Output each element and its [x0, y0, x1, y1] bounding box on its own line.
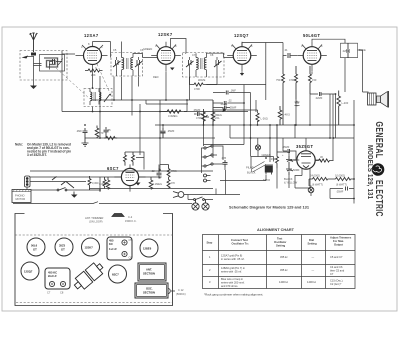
switch slashes [52, 177, 74, 189]
C12 trimmer bump [168, 289, 175, 294]
resistor 3300 [88, 176, 91, 190]
wire x353 right bus [353, 100, 355, 204]
switch S2 [57, 188, 67, 191]
diode arrow [223, 108, 228, 112]
resistor 5MEG [149, 177, 153, 189]
svg-text:150: 150 [271, 157, 276, 161]
svg-text:150: 150 [312, 78, 317, 82]
svg-text:GT: GT [61, 248, 65, 252]
capacitor .05MF near V5 [285, 149, 293, 153]
svg-text:ELECTRIC: ELECTRIC [374, 180, 386, 217]
IF2 primary winding [196, 58, 202, 70]
svg-text:12SA7: 12SA7 [84, 33, 99, 38]
loop antenna dashed box [20, 51, 67, 81]
capacitor .02MF plate bypass [341, 43, 358, 58]
IF transformer T2 dashed box [183, 53, 225, 78]
svg-text:series with 200 mmf.: series with 200 mmf. [221, 281, 245, 285]
svg-text:Setting: Setting [308, 242, 317, 246]
svg-text:12SA7 grid (Pin 8): 12SA7 grid (Pin 8) [221, 254, 242, 258]
GE logo [372, 163, 385, 176]
chassis hatched bottom edge [16, 302, 172, 304]
svg-text:KC: KC [109, 242, 113, 246]
wire V6 row [47, 177, 213, 189]
resistors above V6 [124, 152, 127, 166]
svg-text:For Max.: For Max. [333, 239, 344, 243]
resistor 10,000 6 WATT [333, 177, 354, 180]
svg-text:ALIGNMENT CHART: ALIGNMENT CHART [257, 228, 295, 232]
resistor 470K (V6 plate) [167, 165, 170, 179]
wires IF1 to V2 [117, 54, 158, 101]
gang tuning capacitor [71, 260, 105, 292]
wires top of motor area [27, 171, 213, 190]
svg-text:C7: C7 [47, 291, 51, 295]
chassis tube 12SK7 [82, 238, 100, 256]
svg-text:1st I-F: 1st I-F [109, 247, 117, 251]
svg-text:GREEN: GREEN [143, 47, 152, 51]
ground (V3) [240, 73, 244, 76]
svg-text:(ON LOOP): (ON LOOP) [89, 220, 103, 224]
svg-text:SECTION: SECTION [143, 272, 155, 276]
resistor 27K [167, 179, 170, 189]
chassis corner brackets [15, 214, 173, 223]
svg-text:C 12: C 12 [178, 288, 184, 292]
IF2 secondary winding [204, 58, 206, 70]
trimmer C6 [135, 60, 143, 67]
chassis 2nd IF can [45, 268, 70, 289]
svg-text:C7: C7 [330, 272, 334, 276]
first audio tube V6 6SC7 [114, 164, 145, 191]
speaker [377, 91, 389, 108]
connector block [25, 176, 31, 187]
svg-text:MOTOR: MOTOR [16, 197, 26, 201]
AVC wire y110 [213, 110, 258, 145]
table frame [203, 235, 356, 289]
wire x114 [113, 77, 115, 101]
wire x313 V4 cathode [311, 72, 313, 75]
wire x242 V3 cathode [241, 72, 243, 74]
svg-text:C2 (Ant.)*: C2 (Ant.)* [330, 282, 341, 286]
ant trimmer symbol [112, 214, 124, 217]
wire motor to switch [31, 190, 100, 192]
antenna coupling capacitor [31, 53, 36, 56]
capacitor .01MF (V4 grid coupling) [288, 53, 290, 58]
wire V3 plate coupling [242, 43, 287, 101]
capacitor .02MF (cathode bypass) [310, 92, 336, 96]
svg-text:.05MF: .05MF [336, 190, 344, 194]
resistor L-26 vertical [256, 113, 259, 122]
chassis tube 35Z5GT [55, 238, 73, 256]
svg-text:BLACK: BLACK [247, 171, 256, 175]
ant section box [138, 263, 166, 281]
convenience outlet 2 [202, 200, 209, 211]
trimmer C1 [53, 58, 63, 65]
svg-text:50MF: 50MF [293, 168, 300, 172]
dashed gang link (tuning) [56, 68, 90, 99]
wire bus y100 [92, 99, 213, 101]
loop antenna L1 [34, 55, 65, 79]
svg-text:12SQ7: 12SQ7 [24, 270, 33, 274]
svg-text:L-200: L-200 [342, 101, 349, 105]
svg-text:C6: C6 [129, 256, 133, 260]
svg-text:C8: C8 [60, 291, 64, 295]
svg-text:Adjust Trimmers: Adjust Trimmers [330, 236, 352, 240]
svg-text:.2MF: .2MF [76, 129, 82, 133]
convenience outlet 1 [192, 200, 199, 211]
table row 1 [209, 254, 343, 262]
svg-text:Output: Output [334, 243, 343, 247]
capacitor .2MF + ground [83, 128, 88, 138]
wire V5 plate [305, 138, 307, 147]
wire V1 plate to IF1 [93, 42, 111, 58]
output transformer T3 [368, 93, 377, 105]
svg-text:Schematic Diagram for Models 1: Schematic Diagram for Models 129 and 131 [229, 205, 310, 210]
ground (line) [71, 192, 78, 198]
resistor 3.3MEG horizontal [163, 110, 187, 114]
svg-text:35Z5: 35Z5 [59, 244, 66, 248]
svg-text:—: — [312, 256, 315, 259]
svg-text:40MF: 40MF [293, 158, 300, 162]
antenna [30, 33, 38, 53]
svg-text:C8: C8 [210, 53, 214, 57]
svg-text:.25MF: .25MF [167, 129, 175, 133]
svg-text:24,000Ω: 24,000Ω [310, 174, 320, 178]
speaker field coil L-2 [265, 164, 273, 175]
svg-text:ANT. TRIMMER: ANT. TRIMMER [85, 216, 104, 220]
potentiometer 2MEG VOL [206, 109, 215, 125]
wire x160 [159, 100, 161, 170]
chassis 1st IF can [107, 237, 132, 260]
svg-text:(500KC): (500KC) [176, 292, 186, 296]
capacitor .05MF line filter [346, 187, 348, 191]
wire osc connections [90, 88, 99, 105]
AVC wire y92.5 [213, 93, 251, 157]
svg-text:20K: 20K [91, 73, 96, 77]
wires lamp loop [251, 150, 274, 168]
svg-text:470K: 470K [289, 78, 295, 82]
capacitor .005MF [223, 160, 228, 167]
svg-text:470: 470 [99, 131, 104, 135]
AVC wire y103 [206, 85, 266, 145]
wires filter section [220, 152, 289, 189]
wire x230 [229, 125, 231, 138]
svg-text:35Z5GT: 35Z5GT [296, 144, 314, 149]
svg-text:2nd I-F: 2nd I-F [48, 274, 57, 278]
svg-text:MODELS 129, 131: MODELS 129, 131 [366, 145, 373, 199]
svg-text:12BA6 grid (Pin 7) in: 12BA6 grid (Pin 7) in [221, 266, 245, 270]
wire to speaker [358, 50, 369, 92]
detector tube V3 12SQ7 [227, 42, 257, 72]
svg-text:.02MF: .02MF [315, 96, 323, 100]
phono motor box [12, 190, 31, 203]
svg-text:.02: .02 [228, 99, 232, 103]
resistor 180 horizontal [104, 136, 117, 139]
svg-text:455 kc: 455 kc [280, 268, 288, 272]
wire x270 [269, 125, 271, 162]
svg-text:GENERAL: GENERAL [374, 122, 386, 159]
wire diagonals (cable) [252, 162, 267, 173]
svg-text:6SC7: 6SC7 [112, 273, 119, 277]
svg-text:OSC.: OSC. [146, 287, 153, 291]
capacitor .05MF coupling [194, 112, 202, 116]
svg-text:27K: 27K [171, 181, 176, 185]
IF1 primary winding [122, 58, 129, 70]
svg-text:3.3MEG: 3.3MEG [168, 114, 178, 118]
svg-text:455 KC: 455 KC [48, 271, 57, 275]
svg-text:50L6GT: 50L6GT [303, 33, 321, 38]
svg-text:Dial: Dial [309, 238, 314, 242]
chassis hatched top edge [15, 234, 173, 236]
svg-text:in series with .05 mf.: in series with .05 mf. [221, 257, 245, 261]
table row 3 [209, 277, 344, 288]
wire x213 [212, 100, 214, 158]
resistor 470K vertical [202, 109, 206, 125]
capacitor .05MF (V4 grid) [295, 101, 300, 106]
table header text [207, 236, 352, 248]
svg-text:VOL: VOL [215, 116, 221, 120]
svg-text:and 470 ohms.: and 470 ohms. [221, 284, 238, 288]
svg-text:C7: C7 [192, 53, 196, 57]
svg-text:12SK7: 12SK7 [85, 246, 94, 250]
svg-text:—: — [312, 269, 315, 272]
svg-text:1500 K.C.: 1500 K.C. [125, 219, 137, 223]
svg-text:12SQ7: 12SQ7 [234, 33, 249, 38]
svg-text:RED: RED [153, 75, 159, 79]
svg-text:1400 kc: 1400 kc [307, 280, 317, 284]
svg-text:C5: C5 [113, 48, 117, 52]
wire bus y111.5 [62, 61, 248, 112]
chassis tube 50L6GT [27, 238, 45, 256]
IF1 secondary winding [131, 58, 133, 70]
wire V1 cathode down [92, 71, 94, 112]
wire x166 V2 cathode [165, 72, 167, 101]
wires V5 cathode/heater [295, 176, 311, 197]
phono jack [204, 174, 211, 182]
svg-text:.02MF: .02MF [342, 49, 350, 53]
wire bus y138 [85, 137, 354, 139]
svg-text:Oscillator To:: Oscillator To: [232, 242, 249, 246]
trimmer C5 [113, 60, 121, 67]
wire x100 [99, 76, 101, 138]
svg-text:SECTION: SECTION [143, 291, 155, 295]
wire switch feeders [204, 144, 245, 146]
top B+ bus wire [111, 42, 122, 55]
resistor 470K (V4 grid) [295, 66, 298, 100]
rectifier tube V5 35Z5GT [291, 147, 321, 176]
wire x280 [282, 42, 284, 44]
arrow (loop lead) [22, 56, 29, 59]
svg-text:PHONO: PHONO [15, 194, 25, 198]
resistor 470K (diode load) [191, 83, 206, 86]
resistor 470 ohm vertical [95, 126, 99, 139]
svg-text:C4 and C6: C4 and C6 [330, 265, 343, 269]
svg-text:(6 WATT): (6 WATT) [336, 183, 347, 187]
ground (V2 cathode) [170, 68, 175, 71]
svg-text:470K: 470K [194, 87, 200, 91]
capacitor .01MF [221, 106, 230, 110]
resistor 20K (V1 cathode) [85, 69, 103, 72]
osc section box [135, 283, 168, 298]
field coil resistor L-200 [337, 91, 341, 126]
svg-text:Test: Test [277, 237, 282, 241]
svg-text:470K: 470K [196, 116, 202, 120]
oscillator coil dashed box [84, 89, 112, 107]
svg-text:C5: C5 [129, 238, 133, 242]
pilot lamp [308, 187, 314, 193]
svg-text:5.1MEG: 5.1MEG [153, 182, 163, 186]
output tube V4 50L6GT [297, 42, 327, 72]
ground (V6 cathode) [136, 183, 141, 186]
svg-text:Connect Test: Connect Test [231, 238, 248, 242]
resistor (line filter) [103, 177, 106, 189]
svg-text:ANT.: ANT. [146, 268, 152, 272]
table row 2 [209, 265, 345, 276]
wire V4 plate to output transformer [312, 39, 345, 92]
resistor 24,000 6 WATT [309, 177, 333, 180]
resistor 3.3MEG (V6 grid) [106, 177, 110, 189]
svg-text:50L6: 50L6 [31, 244, 38, 248]
svg-text:.01: .01 [284, 48, 288, 52]
wire bus y104 [146, 100, 188, 104]
wire antenna to tube grid [50, 51, 76, 70]
svg-text:10,000Ω: 10,000Ω [335, 174, 345, 178]
resistor 22MEG vertical [278, 106, 282, 125]
svg-text:.005: .005 [221, 156, 227, 160]
wire x132 [131, 77, 133, 116]
IF amplifier tube V2 12SK7 [151, 42, 181, 72]
wire box right of V6 [125, 152, 144, 170]
svg-text:PILOT: PILOT [246, 166, 254, 170]
trimmer C8 [214, 60, 222, 67]
capacitor .01 near V6 [157, 168, 162, 179]
svg-text:Blue wire or loop in: Blue wire or loop in [221, 277, 244, 281]
svg-text:C5 and C7: C5 and C7 [330, 255, 343, 259]
chassis tube 12BE6 [140, 239, 158, 257]
svg-text:1400 kc: 1400 kc [279, 280, 289, 284]
trimmer C7 [186, 60, 194, 67]
svg-text:6SC7: 6SC7 [107, 166, 119, 171]
oscillator coil L3 [90, 92, 111, 102]
dial lamp [255, 145, 260, 150]
svg-text:SPKR: SPKR [263, 178, 270, 182]
svg-text:C-2: C-2 [128, 215, 133, 219]
wires switch bank [202, 146, 226, 173]
electrolytic capacitors 40MF 50MF [286, 156, 293, 175]
wire x295 [295, 100, 296, 138]
svg-text:Step: Step [207, 241, 213, 245]
svg-text:.05: .05 [107, 128, 111, 132]
resistor 150 ohm [276, 125, 279, 168]
junction dots [84, 87, 355, 199]
chassis tube 12SQ7 [21, 262, 39, 280]
wire bus y125 [155, 124, 354, 126]
chassis tube 6SC7 [109, 265, 127, 283]
phono-radio switch bank [204, 145, 213, 167]
svg-text:L-26Ω: L-26Ω [261, 117, 268, 121]
resistor 150 (V4 cathode) [309, 66, 312, 94]
switch (AC) [194, 197, 205, 201]
capacitor .05MF [104, 127, 109, 138]
wire AC line [188, 170, 240, 200]
ground (loop) [30, 86, 37, 90]
resistor 750 (grid leak) [282, 56, 285, 126]
svg-text:12BE6: 12BE6 [143, 247, 152, 251]
svg-text:*Rock gang condenser when maki: *Rock gang condenser when making alignme… [204, 293, 263, 297]
svg-text:WAVE: WAVE [198, 78, 206, 82]
svg-text:750: 750 [276, 78, 281, 82]
svg-text:455: 455 [109, 239, 114, 243]
wire x140 [139, 104, 141, 155]
svg-text:455 kc: 455 kc [280, 255, 288, 259]
svg-text:.05MF: .05MF [193, 108, 201, 112]
svg-text:3 of 35Z5-GT.: 3 of 35Z5-GT. [27, 153, 47, 157]
svg-text:Note:: Note: [15, 143, 23, 147]
capacitor 250MMF [161, 128, 166, 138]
note text block [15, 143, 71, 158]
wire x330 [329, 94, 331, 138]
svg-text:(6 WATT): (6 WATT) [312, 183, 323, 187]
converter tube V1 12SA7 [76, 42, 108, 71]
IF transformer T1 dashed box [111, 53, 143, 77]
svg-text:& YELLOW: & YELLOW [284, 181, 298, 185]
capacitor .02MF [224, 101, 226, 105]
ground (filter) [82, 138, 89, 146]
svg-text:Setting: Setting [276, 244, 285, 248]
AC plug [173, 192, 188, 198]
svg-text:BLACK: BLACK [284, 177, 293, 181]
svg-text:.1MF: .1MF [230, 89, 236, 93]
svg-text:GT: GT [33, 248, 37, 252]
svg-text:12SK7: 12SK7 [158, 32, 173, 37]
svg-text:L-48.5: L-48.5 [283, 113, 291, 117]
svg-text:Oscillator: Oscillator [274, 240, 286, 244]
svg-text:series with .05 mf.: series with .05 mf. [221, 270, 242, 274]
resistor 30 ohm (plate) [315, 159, 333, 162]
wire V2 plate to top bus [171, 39, 187, 54]
svg-text:.05MF: .05MF [229, 106, 237, 110]
svg-text:then C5 and: then C5 and [330, 269, 345, 273]
svg-text:3,300: 3,300 [92, 181, 99, 185]
wire x256 [255, 100, 257, 112]
svg-text:C15 (Osc.),: C15 (Osc.), [330, 279, 344, 283]
AC line wire lower [13, 202, 192, 204]
chassis left/right/bottom outline [15, 223, 173, 306]
capacitor .1MF [226, 91, 228, 95]
wires IF2 to V3 [190, 53, 234, 77]
wire x190 [189, 77, 191, 100]
wire x203 [203, 112, 205, 147]
